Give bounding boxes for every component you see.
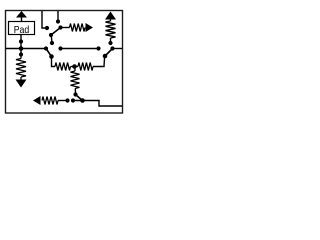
- node S3 left contact: [96, 46, 100, 50]
- node S1 common: [58, 25, 62, 29]
- node S2 left contact: [44, 46, 48, 50]
- wire from top rail to switch S1 left contact: [42, 11, 46, 28]
- wire from top rail to switch S1 upper contact: [57, 11, 59, 20]
- wire R7 to S4 left contact: [58, 100, 66, 102]
- wire Pad stem: [20, 34, 22, 55]
- switch S4 blade: [76, 95, 83, 101]
- node S3 blade tip: [110, 46, 114, 50]
- node S4 upper contact: [73, 92, 77, 96]
- node center junction: [72, 64, 77, 69]
- node S3 upper contact: [108, 41, 112, 45]
- resistor R2: [106, 20, 116, 43]
- wire R5 to S3 pivot: [93, 57, 105, 67]
- node S4 pivot: [80, 98, 85, 103]
- wire S1 common to resistor R1: [61, 27, 70, 29]
- resistor R3 left shunt: [16, 55, 26, 80]
- node pad bus junction: [19, 46, 24, 51]
- resistor R5: [78, 63, 93, 71]
- wire S1 pivot down to S2 upper contact: [50, 35, 53, 43]
- wire S4 to bottom right rail: [73, 101, 122, 107]
- wire S3 blade to right rail: [113, 48, 123, 50]
- arrow to bottom rail below R3: [16, 80, 27, 88]
- node S4 left contact: [65, 98, 69, 102]
- wire R4 to R5: [71, 66, 79, 68]
- arrow to right rail after R1: [86, 23, 94, 32]
- wire pad bus to left rail: [6, 48, 46, 50]
- wire S2 pivot down to series chain: [52, 57, 56, 67]
- node S1 upper contact: [56, 19, 60, 23]
- wire S2 right contact to S3 left contact: [61, 48, 97, 50]
- node left resistor top: [19, 52, 23, 56]
- arrow from top rail to resistor R2: [105, 12, 116, 20]
- node S1 left contact: [45, 26, 49, 30]
- node pad stem junction: [19, 39, 23, 43]
- node S2 right contact: [58, 46, 62, 50]
- resistor R6 center shunt: [71, 67, 80, 94]
- node S3 pivot: [103, 54, 108, 59]
- switch S2 blade: [46, 49, 52, 57]
- border frame: [6, 11, 123, 114]
- resistor R7 bottom: [42, 97, 58, 105]
- node S2 upper contact: [50, 41, 54, 45]
- node S2 pivot: [49, 54, 54, 59]
- arrow to top rail above Pad: [16, 11, 27, 21]
- node S1 pivot: [49, 33, 53, 37]
- pad terminal box: [9, 22, 35, 35]
- switch S1 blade: [51, 28, 61, 36]
- resistor R1: [70, 24, 86, 32]
- switch S3 blade: [105, 49, 113, 57]
- resistor R4: [55, 63, 71, 71]
- node S4 right contact: [71, 98, 75, 102]
- arrow to left rail before R7: [33, 96, 41, 105]
